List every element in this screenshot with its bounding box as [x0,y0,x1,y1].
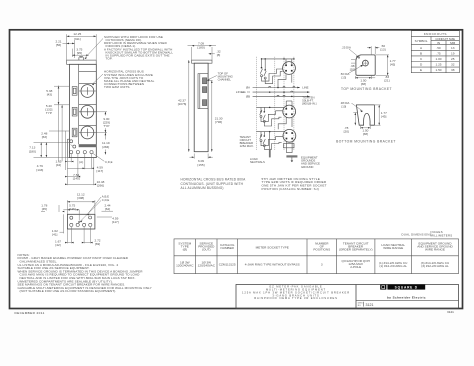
wires CB1 to M1 [262,69,283,81]
dim 6.09 [193,154,195,159]
svg-text:TOP MOUNTING BRACKET: TOP MOUNTING BRACKET [341,87,392,91]
top bracket hole [363,60,369,66]
dim .78 left [353,112,357,114]
bottom dim extension lines [66,158,68,185]
svg-text:25: 25 [451,57,455,61]
breaker CB3 [260,135,262,137]
enclosure body [70,64,97,157]
wires M1 to line bus [278,74,286,87]
svg-text:WIRE RANGE: WIRE RANGE [383,246,403,250]
side drip hood cap [192,60,212,63]
meter compartment lines [79,71,97,73]
svg-text:LINE: LINE [236,90,243,94]
svg-text:1.50: 1.50 [435,68,441,72]
svg-text:125A MAX.: 125A MAX. [240,144,254,148]
svg-text:[308]: [308] [77,196,84,200]
svg-text:12.25: 12.25 [73,32,81,36]
dim 1.78 [58,205,60,212]
dim 42.37 [188,60,190,152]
bottom bracket outline [356,105,374,125]
line bus N [253,91,310,93]
title block outline [236,285,459,309]
svg-text:[10]: [10] [342,105,347,109]
label C,D,E leader [93,153,105,161]
svg-text:[117]: [117] [112,220,119,224]
dim 1.50 bottom [354,76,356,79]
dim 3.75 [71,49,73,57]
svg-text:[95]: [95] [77,51,82,55]
svg-text:[56]: [56] [56,43,61,47]
dim 7.54 [67,176,78,178]
tenant breaker 3 [72,128,77,137]
dim 1.62 [63,214,65,233]
svg-text:120/240VAC: 120/240VAC [198,264,216,268]
svg-text:(3) #12-2/0 AWG AL: (3) #12-2/0 AWG AL [421,264,449,268]
lower-left leaders [34,142,71,144]
svg-text:3121: 3121 [366,303,374,307]
svg-text:C,D,E: C,D,E [105,160,113,164]
svg-text:38: 38 [451,68,455,72]
svg-text:[143]: [143] [36,168,43,172]
breaker CB1 [261,59,263,67]
svg-text:(NOT SUITABLE FOR USE AS FLOOR: (NOT SUITABLE FOR USE AS FLOOR STANDING … [20,289,117,293]
svg-text:4-JAW RING TYPE WITHOUT BYPASS: 4-JAW RING TYPE WITHOUT BYPASS [245,263,300,267]
svg-text:[45]: [45] [42,207,47,211]
dim .32 [209,53,215,55]
SQUARE D logo [380,284,386,289]
svg-text:[800LB-IN.]: [800LB-IN.] [302,102,316,106]
svg-text:.75: .75 [436,51,441,55]
svg-text:1.00: 1.00 [435,57,441,61]
left dim chain lines [58,86,60,162]
svg-text:[41]: [41] [52,232,57,236]
meter socket M1 [283,62,296,75]
knockouts table grid [411,31,459,73]
dim 10.48 [67,183,93,185]
svg-text:IN: IN [437,41,440,45]
meter socket M2 [283,105,296,118]
svg-text:[20]: [20] [344,130,349,134]
svg-text:BOTTOM MOUNTING BRACKET: BOTTOM MOUNTING BRACKET [336,140,396,144]
svg-text:KNOCKOUTS: KNOCKOUTS [424,32,447,36]
endwall knockout holes [70,216,73,219]
svg-text:SQUARE D: SQUARE D [395,285,418,289]
svg-text:[180]: [180] [198,45,205,49]
svg-text:.50: .50 [436,46,441,50]
svg-text:3121: 3121 [447,310,454,314]
breaker column divider [78,64,80,144]
svg-text:[42]: [42] [55,243,60,247]
neutral bar hatch [269,149,271,158]
svg-text:[796]: [796] [215,120,222,124]
bottom knockout circles [70,151,73,154]
svg-text:(1) #12-2/0 AWG AL: (1) #12-2/0 AWG AL [379,264,407,268]
svg-text:120/240VAC: 120/240VAC [176,264,194,268]
svg-text:[63]: [63] [42,135,47,139]
svg-text:(Ø): (Ø) [183,248,187,252]
svg-text:19: 19 [451,51,455,55]
dim .83 bottom right [371,77,375,79]
svg-text:CHANNEL: CHANNEL [218,78,232,82]
svg-text:TWO EZM UNITS.: TWO EZM UNITS. [104,85,131,89]
breaker CB2 [260,111,262,113]
svg-text:13: 13 [451,46,455,50]
dim 1.77 right [376,54,389,56]
leader to socket [92,74,103,85]
svg-text:1.25: 1.25 [435,63,441,67]
svg-text:MM: MM [450,41,456,45]
bus junction dots [277,87,279,89]
svg-text:[38]: [38] [363,132,368,136]
svg-text:[13]: [13] [342,75,347,79]
dim 4.59 right [97,216,112,218]
meter socket ring 2 [81,105,94,118]
jumper wire row2 [256,106,284,108]
svg-text:RAINPROOF NEMA TYPE 3R ENCLOSU: RAINPROOF NEMA TYPE 3R ENCLOSURES [254,296,338,300]
svg-text:NO.: NO. [358,305,362,307]
bus hop bumps [283,86,295,87]
svg-text:[42]: [42] [56,163,61,167]
ground bar symbol [286,155,297,157]
meter socket ring 3 [81,126,94,139]
svg-text:E: E [420,68,422,72]
top bracket small hole [358,57,360,59]
svg-text:[266]: [266] [97,183,104,187]
dim 1.50 bottom [360,126,362,129]
svg-text:32: 32 [451,63,455,67]
dim 21.30 [206,80,213,82]
svg-text:[69]: [69] [95,242,100,246]
svg-text:DECEMBER 2011: DECEMBER 2011 [15,311,45,315]
dim 2.72 [83,227,85,243]
svg-text:[8]: [8] [217,53,221,57]
dim 4.59 [85,167,92,169]
svg-text:ØA: ØA [246,86,250,90]
top jumper wire [262,58,294,60]
dim 5.75 [63,209,67,211]
leader to hood [85,39,103,59]
dim 1.65 [67,161,71,163]
top bracket outline [356,55,375,75]
wires M3 to grounds [285,142,287,153]
svg-text:CZM113125: CZM113125 [219,263,236,267]
neutral lug circles [70,140,73,143]
svg-text:ALL ALUMINUM BUSSING): ALL ALUMINUM BUSSING) [181,186,224,190]
terminal hatch bar [79,144,97,147]
svg-text:LINE: LINE [302,86,308,90]
svg-text:MILLIMETERS: MILLIMETERS [431,234,453,238]
dim 2.21 [74,41,76,59]
dim 12.25 [66,34,68,60]
svg-text:(OUT): (OUT) [202,248,211,252]
svg-text:C,D,E: C,D,E [102,198,110,202]
tenant breaker 1 [72,87,77,96]
svg-text:[45]: [45] [381,115,386,119]
meter socket M3 [283,129,296,142]
wires CB2 to M2 [261,111,282,122]
line bus A [253,87,300,89]
svg-text:GROUND: GROUND [301,165,313,169]
svg-text:NUMBER: NUMBER [220,246,234,250]
svg-text:.25 DIA: .25 DIA [342,45,351,49]
svg-text:[140]: [140] [73,176,80,180]
svg-text:TYP: TYP [103,124,109,128]
svg-text:[10]: [10] [350,67,355,71]
svg-text:3: 3 [321,263,323,267]
svg-text:[284]: [284] [102,145,109,149]
meter socket ring 1 [81,85,94,98]
svg-text:SYMBOL: SYMBOL [415,39,428,43]
svg-text:ØB: ØB [246,95,250,99]
dim 7.09 [191,47,193,60]
svg-text:by Schneider Electric: by Schneider Electric [387,296,426,300]
bottom section left edge [66,139,68,157]
wires M2 down [278,118,286,130]
unit boundary dashed lines [255,57,257,151]
svg-text:[45]: [45] [390,63,395,67]
drip hood [67,60,97,64]
dim .50 top [370,46,372,54]
svg-text:DUAL DIMENSIONS:: DUAL DIMENSIONS: [402,232,433,236]
svg-text:METER SOCKET TYPE: METER SOCKET TYPE [256,246,289,250]
svg-text:[311]: [311] [74,37,81,41]
neutral assembly box below M3 [284,144,295,148]
svg-text:B: B [420,51,422,55]
dim 11.19 [104,133,106,140]
dim 1.67 [66,230,68,244]
top knockout tab [79,56,83,60]
side body [194,63,208,152]
svg-text:[117]: [117] [96,169,103,173]
svg-text:[43]: [43] [47,93,52,97]
svg-text:(ORDER SEPARATELY): (ORDER SEPARATELY) [339,248,373,252]
svg-text:[146]: [146] [69,207,76,211]
bottom endwall outline [67,214,95,229]
dim 1.77 right [375,104,381,106]
svg-text:(A): (A) [79,160,83,164]
svg-text:WIRE RANGE: WIRE RANGE [425,248,445,252]
svg-text:[38]: [38] [361,82,366,86]
svg-text:[1076]: [1076] [178,102,187,106]
svg-text:TYP: TYP [46,111,52,115]
svg-text:[13]: [13] [380,48,385,52]
jumper wire row3 [256,131,284,133]
svg-text:POSITION (CATALOG NUMBER: SJ): POSITION (CATALOG NUMBER: SJ) [262,187,319,191]
dim 12.12 [66,200,68,214]
svg-text:IN SUPPLIED FOR CABLE EXITS OU: IN SUPPLIED FOR CABLE EXITS OUT THE [106,54,170,58]
drawing frame [10,30,463,309]
mounting channel [198,74,208,109]
svg-text:[62]: [62] [105,207,110,211]
tenant breaker 2 [72,107,77,116]
dim 9.00 TYP [97,111,108,113]
main table grid [174,239,459,274]
svg-text:[155]: [155] [198,163,205,167]
svg-text:[180]: [180] [29,150,36,154]
svg-text:TOP.: TOP. [106,57,113,61]
dim .38 left [351,59,355,61]
line bus B [253,95,310,97]
svg-text:NEUTRALS: NEUTRALS [250,160,265,164]
svg-text:2-POLE: 2-POLE [350,265,361,269]
svg-text:[21]: [21] [384,79,389,83]
wires CB3 to M3 [261,137,283,146]
svg-text:POSITIONS: POSITIONS [313,248,330,252]
